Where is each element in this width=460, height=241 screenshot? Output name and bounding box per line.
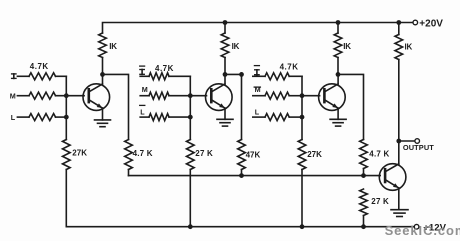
resistor R20 4.7K (input M-bar) — [265, 92, 289, 99]
wire bus2 to Q2 base — [190, 95, 206, 97]
wire +20V supply rail — [103, 23, 413, 34]
wire L resistor to bus (stage 3) — [289, 116, 302, 118]
node bus2/M row — [188, 93, 193, 98]
wire Q2 emitter lead — [224, 108, 226, 119]
label input I-bar — [140, 66, 145, 74]
node top rail / R7 1K junction — [336, 20, 341, 25]
node R5/base rail — [239, 173, 244, 178]
label +12V supply — [423, 222, 446, 233]
label +20V — [419, 18, 443, 29]
label R15 4.7K — [155, 64, 174, 73]
label R10 1K — [405, 42, 413, 51]
resistor R1 1K (Q1 collector load) — [99, 33, 107, 58]
wire M resistor to Q1 base — [56, 95, 85, 97]
wire Q4 base rail — [129, 175, 381, 177]
svg-text:4.7K: 4.7K — [155, 64, 174, 73]
wire Q1 collector to R2 — [103, 74, 129, 139]
wire input M-bar stub — [253, 95, 265, 97]
node bus3/L row — [300, 115, 305, 120]
label input M — [10, 92, 16, 101]
wire input I stub — [17, 75, 29, 77]
resistor R16 4.7K (input M stage 2) — [149, 92, 169, 99]
svg-text:OUTPUT: OUTPUT — [403, 143, 434, 152]
svg-text:IK: IK — [109, 42, 117, 51]
svg-text:27K: 27K — [307, 150, 322, 159]
wire Q1 collector lead — [102, 75, 104, 84]
wire Q1 emitter lead — [102, 108, 104, 120]
transistor Q1 — [83, 84, 110, 111]
wire I-bar resistor to bus (stage 3) — [289, 75, 302, 77]
wire -12V supply rail — [66, 226, 414, 228]
resistor R18 27K (stage-2 pulldown) — [187, 140, 195, 170]
wire R18 to bottom rail — [189, 170, 191, 227]
svg-text:L: L — [11, 113, 16, 122]
wire stage-1 summing bus — [65, 76, 67, 139]
wire R14 to bottom rail — [65, 170, 67, 227]
label R9 27K — [371, 197, 389, 206]
transistor Q2 — [206, 84, 233, 111]
label input M (stage 2) — [142, 85, 148, 94]
wire input I-bar stub (stage 3) — [253, 75, 265, 77]
wire stage-2 summing bus — [189, 76, 191, 139]
node bus1/L row — [64, 115, 69, 120]
ground Q1 emitter — [95, 120, 111, 127]
node bus1/M row — [64, 93, 69, 98]
wire top rail to R4 — [224, 23, 226, 34]
svg-text:4.7 K: 4.7 K — [133, 149, 153, 158]
wire input M stub — [17, 95, 29, 97]
wire Q4 collector lead — [398, 141, 400, 164]
resistor R21 4.7K (input L stage 3) — [265, 114, 289, 121]
label R2 4.7K — [133, 149, 153, 158]
label R5 47K — [246, 150, 261, 159]
ground Q3 emitter — [330, 119, 346, 126]
wire stage-3 summing bus — [301, 76, 303, 139]
ground Q2 emitter — [217, 119, 233, 126]
wire R7 to Q3 collector — [337, 58, 339, 75]
svg-text:47K: 47K — [246, 150, 261, 159]
wire R1 to Q1 collector — [102, 58, 104, 75]
resistor R15 4.7K (input I-bar) — [149, 73, 169, 80]
label input M-bar — [254, 85, 260, 94]
node Q2 collector — [223, 72, 228, 77]
node top rail / R4 1K junction — [223, 20, 228, 25]
wire R2 to base rail — [128, 170, 130, 176]
label R4 1K — [232, 42, 240, 51]
svg-text:M: M — [142, 85, 148, 94]
svg-text:M: M — [255, 85, 261, 94]
wire M-bar resistor to bus — [289, 95, 302, 97]
wire top rail to R10 — [398, 23, 400, 35]
wire input L stub — [17, 116, 29, 118]
svg-text:M: M — [10, 92, 16, 101]
wire R4 to Q2 collector — [224, 58, 226, 75]
svg-text:IK: IK — [405, 42, 413, 51]
resistor R19 4.7K (input I-bar stage 3) — [265, 73, 289, 80]
wire R22 to bottom rail — [301, 170, 303, 227]
node bus3/M row — [300, 93, 305, 98]
svg-text:SeekIC.com: SeekIC.com — [385, 223, 460, 238]
label R18 27K — [195, 149, 213, 158]
wire M resistor to bus (stage 2) — [169, 95, 190, 97]
wire R10 to Q4 collector — [398, 60, 400, 142]
node R9 / bottom rail — [361, 224, 366, 229]
resistor R9 27K (Q4 base pulldown) — [360, 189, 368, 216]
wire Q3 collector lead — [337, 75, 339, 84]
node stage-3 bus / bottom rail — [300, 224, 305, 229]
wire L resistor to bus — [56, 116, 67, 118]
label R14 27K — [72, 149, 87, 158]
terminal OUTPUT — [415, 139, 420, 144]
label input L — [11, 113, 16, 122]
wire bus3 to Q3 base — [302, 95, 320, 97]
svg-text:+20V: +20V — [419, 18, 443, 29]
ground Q4 emitter — [391, 210, 408, 217]
label input L-bar — [140, 105, 146, 116]
wire Q4 emitter lead — [398, 188, 400, 210]
label R1 1K — [109, 42, 117, 51]
node stage-2 bus / bottom rail — [188, 224, 193, 229]
wire R9 to bottom rail — [363, 216, 365, 227]
resistor R7 1K (Q3 collector load) — [334, 33, 342, 58]
wire input M stub (stage 2) — [140, 95, 149, 97]
resistor R2 4.7K (Q1 collector to Q4 base) — [125, 140, 133, 170]
transistor Q3 — [319, 84, 346, 111]
svg-text:27K: 27K — [72, 149, 87, 158]
terminal -12V — [414, 224, 419, 229]
resistor R5 47K (Q2 collector to Q4 base) — [238, 140, 246, 170]
svg-text:L: L — [140, 107, 145, 116]
wire I resistor to bus — [56, 75, 67, 77]
transistor Q4 — [379, 164, 406, 191]
svg-text:IK: IK — [343, 42, 351, 51]
wire top rail to R7 — [337, 23, 339, 34]
node R8/R9/base rail — [361, 173, 366, 178]
label input L (stage 3) — [255, 107, 260, 116]
node Q2 collector link corner — [239, 72, 244, 77]
label R8 4.7K — [369, 149, 389, 158]
resistor R10 1K (Q4 collector load) — [395, 35, 403, 60]
wire OUTPUT — [399, 140, 415, 142]
wire Q2 collector to R5 — [225, 74, 242, 139]
wire input I-bar stub — [140, 75, 149, 77]
wire R8 to base rail — [363, 169, 365, 176]
node top rail / R10 1K junction — [396, 20, 401, 25]
terminal +20V — [413, 20, 418, 25]
wire Q2 collector lead — [224, 75, 226, 84]
label input I — [12, 74, 16, 79]
svg-text:L: L — [255, 107, 260, 116]
wire input L-bar stub — [140, 116, 149, 118]
label OUTPUT — [403, 143, 434, 152]
svg-text:27 K: 27 K — [195, 149, 213, 158]
node Q3 collector — [336, 72, 341, 77]
resistor R11 4.7K (input I) — [29, 73, 56, 80]
node bus2/L row — [188, 115, 193, 120]
wire R5 to base rail — [241, 170, 243, 176]
resistor R13 4.7K (input L) — [29, 114, 56, 121]
node OUTPUT — [396, 139, 401, 144]
resistor R22 27K (stage-3 pulldown) — [298, 140, 306, 170]
label R11 4.7K — [30, 62, 49, 71]
wire Q3 emitter lead — [337, 108, 339, 119]
resistor R17 4.7K (input L-bar) — [149, 114, 169, 121]
wire I-bar resistor to bus — [169, 75, 190, 77]
svg-text:IK: IK — [232, 42, 240, 51]
label R22 27K — [307, 150, 322, 159]
resistor R12 4.7K (input M) — [29, 92, 56, 99]
svg-text:4.7K: 4.7K — [30, 62, 49, 71]
watermark SeekIC.com — [385, 223, 460, 238]
label input I-bar (stage 3) — [254, 66, 259, 75]
svg-text:4.7 K: 4.7 K — [369, 149, 389, 158]
resistor R4 1K (Q2 collector load) — [221, 33, 229, 58]
node Q1 collector — [100, 72, 105, 77]
wire input L stub (stage 3) — [253, 116, 265, 118]
resistor R8 4.7K (Q3 collector to Q4 base) — [360, 140, 368, 169]
svg-text:27 K: 27 K — [371, 197, 389, 206]
wire L-bar resistor to bus — [169, 116, 190, 118]
resistor R14 27K (stage-1 pulldown) — [63, 140, 71, 170]
wire Q3 collector to R8 — [338, 74, 364, 139]
svg-text:4.7K: 4.7K — [280, 63, 299, 72]
label R7 1K — [343, 42, 351, 51]
label R19 4.7K — [280, 63, 299, 72]
